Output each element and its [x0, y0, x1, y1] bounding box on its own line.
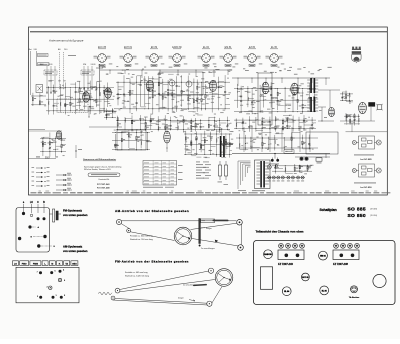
- resistor: [96, 99, 97, 102]
- junction node: [244, 142, 247, 145]
- capacitor: [158, 93, 160, 95]
- svg-text:FZ 7207-248: FZ 7207-248: [97, 186, 110, 189]
- wire: [307, 165, 309, 172]
- svg-text:2x umschlungen: 2x umschlungen: [183, 285, 197, 287]
- electrolytic capacitor C91: [225, 161, 227, 165]
- svg-text:Festtakt ca. 620 mm lang: Festtakt ca. 620 mm lang: [130, 235, 152, 238]
- FM coil cores: [22, 212, 25, 215]
- junction node: [303, 117, 306, 120]
- power transformer: [252, 160, 270, 191]
- junction node: [284, 104, 287, 107]
- wire link: [50, 141, 56, 143]
- wire: [148, 76, 150, 109]
- capacitor: [286, 125, 288, 127]
- cord spring: [213, 220, 229, 222]
- resistor: [115, 144, 116, 147]
- resistor: [197, 86, 198, 89]
- schematic border frame: [29, 27, 388, 195]
- wire: [157, 116, 159, 131]
- wire link: [304, 124, 311, 126]
- capacitor: [123, 93, 125, 95]
- wire: [242, 118, 244, 131]
- wire link: [196, 123, 203, 125]
- wire link: [236, 122, 243, 124]
- capacitor: [114, 144, 116, 146]
- resistor: [183, 119, 184, 122]
- tube EF89 symbol: [209, 81, 216, 92]
- wire bus: [104, 111, 116, 113]
- wire: [158, 77, 160, 112]
- mid lower box: [117, 130, 146, 150]
- wire link: [342, 91, 347, 93]
- wire link: [350, 101, 354, 103]
- tube EM84 indicator: [164, 131, 171, 143]
- wire bus: [116, 94, 230, 96]
- junction node: [341, 96, 344, 99]
- table side labels: [178, 164, 183, 167]
- junction node: [262, 99, 265, 102]
- wire bus: [234, 99, 316, 101]
- legend text right of table: [196, 161, 228, 185]
- resistor: [277, 92, 278, 95]
- wire link: [188, 111, 194, 113]
- resistor: [307, 166, 308, 169]
- capacitor: [150, 120, 152, 122]
- wire link: [264, 91, 270, 93]
- capacitor: [136, 102, 138, 104]
- wire bus: [112, 131, 150, 133]
- wire: [302, 89, 304, 114]
- resistor: [117, 123, 118, 126]
- wire: [123, 75, 125, 106]
- left lower rails: [29, 129, 46, 131]
- resistor: [191, 125, 192, 128]
- wire bus: [234, 111, 316, 113]
- wire: [59, 84, 61, 113]
- svg-text:LO: LO: [30, 202, 33, 204]
- wire link: [108, 92, 113, 94]
- wire link: [275, 168, 283, 170]
- AF enclosure box: [258, 73, 272, 125]
- wire link: [104, 101, 109, 103]
- junction node: [226, 123, 229, 126]
- wire: [297, 85, 299, 110]
- wire: [124, 117, 126, 130]
- wire: [251, 89, 253, 114]
- wire bus: [184, 144, 232, 146]
- wire link: [158, 119, 165, 121]
- main horizontal bus: [232, 153, 330, 155]
- cord tension spring: [98, 292, 112, 295]
- svg-text:FM-Antrieb von der Skalenseite: FM-Antrieb von der Skalenseite gesehen: [115, 260, 189, 264]
- coil: [349, 93, 352, 94]
- wire drop: [265, 78, 267, 85]
- coil: [358, 118, 361, 119]
- upper bus right section: [232, 77, 330, 79]
- junction node: [161, 92, 164, 95]
- wire: [349, 114, 351, 124]
- wire link: [48, 80, 53, 82]
- wire link: [141, 106, 147, 108]
- wire: [308, 83, 310, 109]
- resistor: [307, 167, 308, 170]
- wire: [250, 137, 252, 149]
- junction node: [251, 100, 254, 103]
- wire link: [226, 142, 231, 144]
- svg-text:von unten gesehen: von unten gesehen: [63, 249, 88, 253]
- AM drive cord diagram: [116, 219, 243, 251]
- wire drop: [251, 78, 253, 83]
- capacitor: [167, 89, 169, 91]
- svg-text:Starttakt ca. 1420 mm lang: Starttakt ca. 1420 mm lang: [125, 275, 149, 278]
- coil: [210, 137, 213, 138]
- capacitor: [129, 89, 131, 91]
- wire link: [249, 119, 256, 121]
- wire link: [300, 165, 308, 167]
- capacitor: [89, 98, 91, 100]
- FZ filter unit right: [333, 243, 359, 265]
- AM feeder lines: [46, 66, 48, 94]
- wire: [193, 79, 195, 110]
- antenna input terminals: [29, 48, 104, 96]
- cord direction arrow: [215, 240, 218, 243]
- tube EAF801 top view: [264, 250, 273, 259]
- junction node: [176, 122, 179, 125]
- svg-text:FZ 7207-243: FZ 7207-243: [97, 183, 110, 186]
- wire link: [212, 93, 218, 95]
- wire: [311, 117, 313, 130]
- wire link: [163, 84, 169, 86]
- coil: [235, 123, 238, 124]
- wire link: [275, 133, 284, 135]
- wire: [164, 115, 166, 132]
- coil: [124, 119, 127, 120]
- wire bus: [236, 147, 318, 149]
- trimmer capacitor: [311, 123, 313, 125]
- coil: [238, 143, 241, 144]
- resistor: [165, 126, 166, 129]
- wire link: [172, 107, 178, 109]
- wire: [274, 135, 276, 151]
- coil: [220, 141, 223, 142]
- capacitor: [140, 83, 142, 85]
- wire: [42, 139, 44, 157]
- wire link: [65, 95, 70, 97]
- chassis outline: [254, 241, 396, 305]
- wire bus: [46, 87, 114, 89]
- capacitor: [308, 96, 310, 98]
- resistor: [172, 93, 173, 96]
- junction node: [211, 95, 214, 98]
- chassis speaker cutout: [373, 274, 386, 287]
- wire: [152, 76, 154, 114]
- wire link: [56, 145, 62, 147]
- coil: [269, 123, 272, 124]
- wire: [190, 119, 192, 132]
- wire: [313, 87, 315, 111]
- wire bus: [272, 170, 312, 172]
- table caption: [143, 186, 163, 189]
- tube triode V1b: [105, 88, 112, 98]
- wire: [219, 118, 221, 133]
- wire link: [191, 126, 198, 128]
- FM drive cord diagram: [98, 268, 233, 306]
- capacitor: [308, 143, 310, 145]
- svg-text:FZ 7207-243: FZ 7207-243: [278, 262, 293, 266]
- capacitor: [251, 101, 253, 103]
- wire: [53, 85, 55, 115]
- wire link: [151, 122, 158, 124]
- resistor: [346, 115, 347, 118]
- svg-text:ECC 85: ECC 85: [302, 277, 308, 279]
- wire link: [251, 147, 260, 149]
- stray marks above rows: [36, 156, 40, 159]
- wire link: [177, 95, 183, 97]
- wire: [39, 93, 41, 105]
- wire bus: [112, 140, 150, 142]
- wire link: [165, 128, 172, 130]
- wire: [284, 165, 286, 173]
- capacitor: [176, 85, 178, 87]
- wire link: [196, 156, 201, 158]
- junction node: [246, 91, 249, 94]
- wire link: [285, 103, 291, 105]
- capacitor: [64, 104, 66, 106]
- wire: [200, 119, 202, 129]
- wire: [235, 118, 237, 128]
- wire link: [293, 91, 299, 93]
- trimmer symbol: [50, 209, 62, 222]
- svg-text:SO 850: SO 850: [348, 213, 366, 219]
- capacitor: [218, 86, 220, 88]
- wire bus: [344, 123, 360, 125]
- bottom caption strip: [31, 192, 37, 193]
- wire: [32, 93, 34, 106]
- trimmer capacitor: [195, 138, 197, 140]
- resistor: [121, 139, 122, 142]
- stray node: [75, 150, 76, 151]
- coil: [177, 126, 180, 127]
- wire bus: [184, 153, 232, 155]
- capacitor: [269, 120, 271, 122]
- wire link: [60, 87, 65, 89]
- resistor: [42, 143, 43, 146]
- relay box on bus: [284, 150, 294, 153]
- svg-text:Gemessen mit Röhrenvoltmeter: Gemessen mit Röhrenvoltmeter: [83, 158, 116, 161]
- FZ filter unit left: [278, 243, 304, 265]
- tube pinout ECH 81: [120, 47, 139, 67]
- Graetz crest logo: [352, 47, 361, 64]
- AM band button strip: [13, 261, 78, 266]
- resistor: [84, 93, 85, 96]
- svg-text:FMO: FMO: [22, 264, 27, 266]
- svg-text:bei SO 850: bei SO 850: [360, 187, 372, 189]
- junction node: [140, 134, 143, 137]
- chassis mains transformer: [261, 267, 273, 290]
- wire link: [62, 144, 66, 146]
- wire: [200, 135, 202, 153]
- wire: [298, 117, 300, 131]
- svg-text:240Ω: 240Ω: [91, 64, 96, 66]
- tube pinout ECC 85: [94, 47, 113, 67]
- svg-text:33,5: 33,5: [45, 157, 50, 160]
- svg-text:EL 95: EL 95: [271, 47, 278, 49]
- svg-text:AM-Spulensatz: AM-Spulensatz: [63, 245, 83, 249]
- capacitor: [218, 86, 220, 88]
- resistor: [49, 142, 50, 145]
- wire: [255, 117, 257, 132]
- wire: [341, 92, 343, 101]
- tube EL84 output symbol: [359, 102, 367, 113]
- wire: [204, 131, 206, 155]
- svg-text:FM: FM: [83, 64, 86, 66]
- capacitor: [146, 140, 148, 142]
- coil: [275, 117, 278, 118]
- wire to tuner: [99, 64, 101, 96]
- capacitor: [302, 104, 304, 106]
- tube pinout EL 95: [266, 47, 285, 67]
- resistor: [262, 142, 263, 145]
- wire link: [205, 87, 211, 89]
- FM-Spulensatz outline: [16, 208, 50, 253]
- wire link: [269, 139, 278, 141]
- junction node: [228, 142, 231, 145]
- wire link: [80, 93, 85, 95]
- wire link: [211, 146, 216, 148]
- wire: [79, 81, 81, 109]
- wire drop: [325, 78, 327, 85]
- svg-text:AM: AM: [40, 63, 43, 66]
- coil: [105, 114, 108, 115]
- svg-text:(19 050): (19 050): [370, 215, 377, 217]
- wire: [274, 165, 276, 174]
- resistor: [302, 141, 303, 144]
- wire link: [153, 78, 159, 80]
- svg-text:Teilansicht des Chassis von ob: Teilansicht des Chassis von oben: [256, 230, 304, 234]
- resistor: [79, 99, 80, 102]
- wire: [270, 82, 272, 107]
- resistor: [314, 97, 315, 100]
- tube EL84 driver symbol: [291, 83, 299, 95]
- wire link: [237, 89, 243, 91]
- resistor: [314, 101, 315, 104]
- capacitor: [263, 88, 265, 90]
- mains plug box: [316, 158, 322, 161]
- wire: [275, 116, 277, 132]
- wire link: [209, 116, 216, 118]
- wire: [177, 119, 179, 130]
- tube EL84 top view: [282, 287, 291, 296]
- wire: [294, 164, 296, 172]
- wire link: [115, 149, 121, 151]
- junction node: [283, 146, 286, 149]
- junction node: [213, 120, 216, 123]
- svg-text:EF 89: EF 89: [151, 47, 158, 49]
- wire link: [124, 101, 130, 103]
- resistor: [65, 104, 66, 107]
- wire: [84, 88, 86, 110]
- speaker: [377, 105, 382, 110]
- resistor: [297, 99, 298, 102]
- wire: [282, 118, 284, 131]
- wire: [145, 117, 147, 131]
- antenna coupling boxes: [44, 70, 57, 75]
- wire: [64, 83, 66, 115]
- capacitor: [105, 114, 107, 116]
- resistor: [42, 142, 43, 145]
- svg-text:EABC80: EABC80: [264, 253, 271, 256]
- wire: [55, 136, 57, 156]
- resistor: [129, 92, 130, 95]
- wire link: [54, 102, 59, 104]
- wire link: [70, 83, 75, 85]
- wire drop from top bus: [159, 70, 161, 74]
- svg-text:FM ohne Sender, Toleranz ±10%: FM ohne Sender, Toleranz ±10%: [84, 168, 111, 171]
- wire: [229, 134, 231, 157]
- trimmer capacitor: [226, 125, 228, 127]
- junction node: [218, 128, 221, 131]
- capacitor: [341, 96, 343, 98]
- wire link: [219, 80, 225, 82]
- junction node: [175, 101, 178, 104]
- capacitor: [75, 91, 77, 93]
- capacitor: [248, 125, 250, 127]
- wire link: [159, 94, 165, 96]
- wire link: [239, 149, 248, 151]
- junction node: [298, 125, 301, 128]
- tube pinout EF 89: [146, 47, 165, 67]
- junction node: [267, 143, 270, 146]
- resistor: [136, 136, 137, 139]
- wire: [248, 116, 250, 132]
- resistor: [168, 92, 169, 95]
- svg-text:AM-Antrieb von der Skalenseite: AM-Antrieb von der Skalenseite gesehen: [115, 209, 189, 213]
- wire: [170, 117, 172, 131]
- wire link: [271, 96, 277, 98]
- wire: [262, 137, 264, 149]
- svg-text:SO 885: SO 885: [348, 206, 366, 212]
- IF transformer can outline: [159, 72, 203, 95]
- FM cord spring segment: [193, 284, 207, 286]
- resistor: [145, 122, 146, 125]
- wire bus: [116, 108, 230, 110]
- speaker wiring variant SO885: [352, 136, 381, 149]
- voltage selector comb: [238, 161, 251, 191]
- wire link: [96, 100, 101, 102]
- wire: [220, 129, 222, 152]
- wire link: [252, 112, 258, 114]
- coil: [99, 92, 102, 93]
- wire link: [225, 104, 230, 106]
- tube EM84 top view: [319, 251, 328, 260]
- resistor: [208, 124, 209, 127]
- resistor: [204, 140, 205, 143]
- wire: [218, 77, 220, 111]
- wire: [349, 93, 351, 103]
- wire: [135, 130, 137, 150]
- wire link: [112, 112, 116, 114]
- wire link: [284, 139, 293, 141]
- wire drop from top bus: [177, 70, 179, 75]
- wire link: [298, 92, 304, 94]
- tube EABC80 symbol: [262, 82, 269, 94]
- wire: [107, 83, 109, 108]
- svg-text:TA-Buchse: TA-Buchse: [349, 296, 360, 299]
- svg-text:GES: GES: [72, 264, 77, 266]
- junction node: [254, 119, 257, 122]
- voltage table: [143, 161, 183, 188]
- wire: [69, 89, 71, 112]
